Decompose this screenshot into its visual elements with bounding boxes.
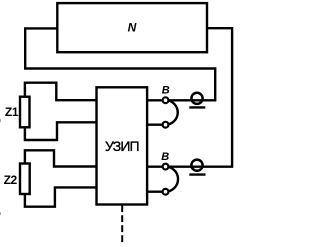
box UZIP (SPD) bbox=[97, 87, 148, 204]
edge speck 1 bbox=[0, 119, 1, 122]
measuring device symbol 1 (circle on bar) bbox=[191, 93, 202, 104]
box N (load/equipment) bbox=[57, 3, 207, 52]
wire stub UZIP right pin 2 bbox=[147, 123, 165, 125]
wire UZIP left pin 1 to Z1 top bbox=[25, 83, 97, 101]
terminal B3 bbox=[163, 164, 169, 170]
wire Z2 bottom to UZIP left pin 4 bbox=[25, 187, 97, 206]
svg-text:N: N bbox=[128, 21, 137, 35]
wire from N left terminal: left, down, across top, down right side to SPD row 1 bbox=[25, 28, 215, 100]
svg-text:Z2: Z2 bbox=[4, 173, 18, 187]
svg-text:B: B bbox=[162, 85, 170, 97]
wire UZIP left pin 3 to Z2 top bbox=[25, 150, 97, 166]
terminal B1 bbox=[163, 97, 169, 103]
dashed earth lead below UZIP bbox=[121, 205, 123, 242]
wire Z1 bottom to UZIP left pin 2 bbox=[25, 122, 97, 140]
edge speck 2 bbox=[0, 212, 1, 215]
svg-text:B: B bbox=[161, 151, 169, 163]
terminal B4 bbox=[163, 189, 169, 195]
wire stub UZIP right pin 4 bbox=[147, 190, 165, 192]
disconnect arc between terminals B3-B4 bbox=[166, 167, 179, 192]
measuring device symbol 2 (circle on bar) bbox=[191, 160, 202, 171]
impedance Z1 bbox=[20, 97, 30, 128]
impedance Z2 bbox=[20, 164, 30, 195]
wire from N right terminal: right, down right edge, left to SPD row 3 bbox=[147, 28, 232, 167]
disconnect arc between terminals B1-B2 bbox=[166, 100, 178, 125]
svg-text:УЗИП: УЗИП bbox=[105, 138, 139, 154]
svg-text:Z1: Z1 bbox=[5, 105, 19, 119]
terminal B2 bbox=[163, 122, 169, 128]
